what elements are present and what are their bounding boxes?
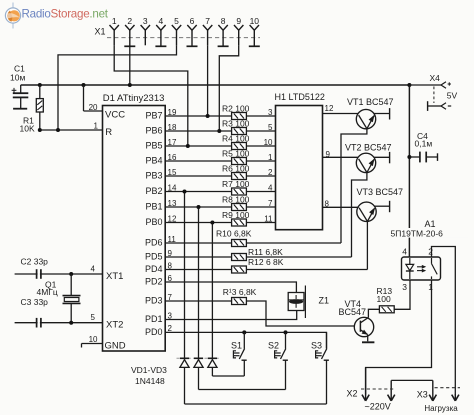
relay A1 light arrows [417,265,426,273]
wire PD2 line to Z1 [165,282,296,293]
svg-text:R9 100: R9 100 [222,210,250,220]
wire PB1 to VD2 [198,207,200,360]
diode VD2 [194,358,203,367]
display pin 12 stub [323,113,359,115]
junction PB1/VD2 wire [197,205,201,209]
transistor VT1 [356,109,375,128]
junction XT2/Q1 [69,321,73,325]
wire PD6 line [165,242,231,244]
svg-text:S2: S2 [268,341,279,351]
svg-text:VT2 BC547: VT2 BC547 [345,143,392,153]
junction PB6/X1 pin9 [217,129,221,133]
svg-text:9: 9 [326,150,331,159]
connector X1 pin 6 [187,16,198,46]
svg-text:VT1 BC547: VT1 BC547 [347,97,394,107]
svg-text:S3: S3 [311,341,322,351]
svg-text:XT1: XT1 [106,271,123,282]
svg-text:PD2: PD2 [145,277,163,287]
connector X1 dashed separation line [107,37,260,39]
svg-text:17: 17 [168,138,177,147]
connector X3 dashed link [435,387,461,389]
junction PB2/VD1 wire [183,190,187,194]
svg-text:5: 5 [174,16,179,26]
svg-text:R2 100: R2 100 [222,104,250,114]
wire bus2 [199,389,286,391]
wire X1 pin7 to PB7 [207,45,209,116]
svg-text:11: 11 [264,214,273,223]
svg-text:XT2: XT2 [106,320,123,331]
resistor R10 6,8K [232,240,247,247]
connector X3 contact 1 [429,380,436,400]
wire bus1 [212,375,244,377]
transistor VT3 emitter lead and tick [374,205,389,207]
switch S3 [316,332,329,360]
svg-text:R6 100: R6 100 [222,164,250,174]
chip pin 16 PB4 row wire [165,160,231,162]
resistor R12 6,8K [232,266,247,273]
chip pin 12 PB0 row wire [165,222,231,224]
svg-text:12: 12 [325,104,334,113]
svg-text:PD0: PD0 [145,327,163,337]
junction +5V/C4 [407,155,411,159]
svg-text:X1: X1 [95,27,106,37]
wire VT4 collector to R13 [368,309,379,317]
svg-text:19: 19 [168,108,177,117]
wire X1 pin9 to PB6 [219,45,238,131]
connector X1 pin 4 [155,16,166,46]
svg-text:1: 1 [94,122,99,131]
wire R13 to A1 pin3 [394,280,410,309]
junction reset/R1 [38,128,42,132]
svg-text:5П19ТМ-20-6: 5П19ТМ-20-6 [391,228,444,238]
svg-text:PD1: PD1 [145,314,163,324]
svg-text:5: 5 [91,313,96,322]
junction PB5/X1 pin1 [186,144,190,148]
junction rail/VCC drop [82,83,86,87]
wire PB2 to VD1 [184,192,186,360]
resistor R9 100 [232,219,247,226]
buzzer Z1 [288,286,305,319]
svg-text:R7 100: R7 100 [222,179,250,189]
resistor R7 100 [232,188,247,195]
wire PD3 line [165,300,231,302]
wire PD4 line [165,269,231,271]
svg-text:3: 3 [268,108,273,117]
capacitor C2 [37,269,41,279]
transistor VT4 [354,317,373,336]
svg-text:R8 100: R8 100 [222,195,250,205]
connector X1 pin 7 [203,16,212,45]
connector X3 contact 2 [452,394,459,401]
svg-text:PD5: PD5 [145,252,163,262]
svg-text:5V: 5V [447,90,458,100]
wire XT2 line [15,322,103,324]
svg-text:PB7: PB7 [145,111,162,121]
connector X4 + contact [409,82,451,88]
svg-text:16: 16 [168,153,177,162]
svg-text:PB6: PB6 [145,126,162,136]
svg-text:BC547: BC547 [339,307,367,317]
svg-text:13: 13 [168,199,177,208]
svg-text:PD6: PD6 [145,238,163,248]
svg-text:8: 8 [221,16,226,26]
resistor R3 100 [232,128,247,135]
svg-text:VT3 BC547: VT3 BC547 [357,187,404,197]
VT4 emitter ground [362,335,374,343]
connector X1 pin 2 [124,16,135,46]
svg-text:PB2: PB2 [145,186,162,196]
wire VT2 collector to PD5/R11 line [352,173,367,258]
chip pin 15 PB3 row wire [165,175,231,177]
connector X1 pin 8 [218,16,229,46]
svg-text:PB3: PB3 [145,171,162,181]
chip pin 14 PB2 row wire [165,191,231,193]
svg-text:10м: 10м [10,73,25,83]
wire XT1 line [15,273,103,275]
svg-text:PD4: PD4 [145,264,163,274]
connector X4 dashed link [433,87,435,104]
junction reset/pin5 wire [56,128,60,132]
svg-text:14: 14 [168,183,177,192]
wire X1 pin1 to PB5 [114,45,188,146]
wire PB0 to VD3 [211,223,213,360]
connector X1 pin 3 [141,16,150,45]
resistor R13 6,8K [232,298,247,305]
junction rail/X1 pin2 [128,83,132,87]
IC D1 ATtiny2313 body [103,106,166,352]
svg-text:R10 6,8K: R10 6,8K [216,229,252,239]
junction XT1/Q1 [69,272,73,276]
wire X2 contact2 to X3 contact1 [391,379,433,381]
svg-text:~220V: ~220V [365,402,391,412]
svg-text:Z1: Z1 [319,296,330,306]
junction rail/X4 [407,83,411,87]
svg-text:5: 5 [268,123,273,132]
svg-text:X4: X4 [430,73,441,83]
svg-text:7: 7 [268,199,273,208]
svg-text:9: 9 [236,16,241,26]
wire +5V rail [21,84,410,86]
wire S1 to bus1 [243,360,245,376]
transistor VT2 emitter lead and tick [374,156,390,158]
svg-text:12: 12 [168,214,177,223]
connector X2 contact 2 [388,380,395,400]
svg-text:4: 4 [91,264,96,273]
display H1 body [276,106,323,230]
resistor R1 [36,99,43,112]
svg-text:10K: 10K [20,124,35,134]
svg-text:RadioStorage.net: RadioStorage.net [22,7,109,20]
junction PB7/X1 pin7 [206,114,210,118]
chip pin 13 PB1 row wire [165,206,231,208]
wire A1 pin2 to X3 [432,247,456,395]
resistor R2 100 [232,113,247,120]
switch S2 [275,332,288,360]
svg-text:2: 2 [268,168,273,177]
diode VD1 [180,358,189,367]
svg-text:2: 2 [428,247,433,257]
junction rail/R1-C1 [38,83,42,87]
logo RadioStorage.net [5,3,108,29]
svg-text:R12 6 8K: R12 6 8K [248,257,284,267]
connector X1 pin 1 [110,16,119,45]
wire VD1 to bus3 [184,367,186,404]
svg-text:Нагрузка: Нагрузка [424,404,458,413]
svg-text:PD3: PD3 [145,296,163,306]
junction PB0/VD3 wire [210,221,214,225]
svg-text:H1 LTD5122: H1 LTD5122 [275,92,325,102]
resistor R4 100 [232,143,247,150]
transistor VT2 [356,153,375,172]
svg-text:7: 7 [205,16,210,26]
svg-text:10: 10 [89,335,98,344]
resistor R8 100 [232,204,247,211]
transistor VT3 [357,202,376,221]
display pin 8 stub [323,206,359,208]
svg-text:C3 33p: C3 33p [21,297,49,307]
svg-text:PB0: PB0 [145,217,162,227]
relay A1 switch [432,258,438,279]
svg-text:3: 3 [143,16,148,26]
svg-text:15: 15 [168,168,177,177]
wire reset line [40,129,103,131]
wire PD0 line to S3 [165,332,326,348]
wire VT3 collector to PD4/R12 line [366,221,368,269]
wire PD5 line [165,256,231,258]
svg-text:1N4148: 1N4148 [135,376,165,386]
wire VT1 collector to PD6/R10 line [341,129,367,243]
capacitor C4 [409,152,437,163]
wire X1 pin5 to reset line [58,45,177,130]
junction PD0/S1 [242,330,246,334]
relay A1 LED [406,258,414,279]
chip pin 17 PB5 row wire [165,145,231,147]
svg-text:R4 100: R4 100 [222,134,250,144]
connector X4 - contact [428,101,452,111]
svg-text:1: 1 [112,16,117,26]
connector X1 pin 10 [249,16,260,46]
resistor R5 100 [232,158,247,165]
svg-text:20: 20 [89,103,98,112]
switch S1 [233,332,246,360]
svg-text:VCC: VCC [105,110,125,121]
display pin 9 stub [323,156,359,158]
connector X2 contact 1 [362,368,369,401]
wire VD3 to bus1 [211,367,213,376]
svg-text:10: 10 [264,138,273,147]
svg-text:8: 8 [325,200,330,209]
connector X1 pin 5 [172,16,181,45]
svg-text:R5 100: R5 100 [222,149,250,159]
wire A1 pin1 to X2 [366,280,432,395]
svg-text:18: 18 [168,123,177,132]
pin 20 VCC stub [83,85,85,111]
connector X1 pin 9 [234,16,243,45]
capacitor C1 [12,85,29,109]
diode cathode dashed line [177,357,221,359]
svg-text:R3 100: R3 100 [222,119,250,129]
svg-text:X3: X3 [417,390,428,400]
svg-text:R11 6,8K: R11 6,8K [248,247,283,257]
wire S3 to bus3 [326,360,328,404]
diode VD3 [208,358,217,367]
transistor VT1 emitter lead and tick [374,113,390,115]
wire bus3 [185,403,327,405]
svg-text:D1 ATtiny2313: D1 ATtiny2313 [103,93,165,104]
svg-text:1: 1 [268,153,273,162]
wire S2 to bus2 [285,360,287,389]
svg-text:2: 2 [127,16,132,26]
svg-text:GND: GND [105,341,126,352]
svg-text:1: 1 [428,282,433,292]
resistor R11 6,8K [232,254,247,261]
wire PD1 line to Z1 bottom [165,311,297,320]
svg-text:4МГц: 4МГц [37,287,58,297]
svg-text:10: 10 [250,16,260,26]
svg-text:0,1м: 0,1м [415,139,433,149]
svg-text:PB1: PB1 [145,202,162,212]
svg-text:6: 6 [190,16,195,26]
chip pin 19 PB7 row wire [165,115,231,117]
wire X1 pin2 to +5V rail [129,46,131,85]
svg-text:VD1-VD3: VD1-VD3 [131,365,167,375]
wire +5V vertical to A1 pin4 [408,85,410,257]
svg-text:X2: X2 [347,389,358,399]
chip pin 18 PB6 row wire [165,130,231,132]
wire R13 to VT4 base [246,301,354,326]
svg-text:4: 4 [268,183,273,192]
wire VD2 to bus2 [198,367,200,389]
svg-text:100: 100 [377,294,391,304]
svg-text:4: 4 [402,247,407,257]
capacitor C3 [37,318,41,328]
svg-text:C2 33p: C2 33p [21,257,49,267]
svg-text:3: 3 [402,282,407,292]
svg-text:R¹3 6,8K: R¹3 6,8K [223,287,257,297]
resistor R1 leads [39,85,41,99]
resistor R13 100 [379,306,394,313]
svg-text:R: R [105,127,112,138]
svg-text:PB5: PB5 [145,141,162,151]
junction PD0/S2 [284,330,288,334]
crystal Q1 [63,274,81,323]
resistor R6 100 [232,173,247,180]
svg-text:S1: S1 [231,341,242,351]
relay A1 body [402,257,441,280]
svg-text:4: 4 [159,16,164,26]
svg-text:PB4: PB4 [145,156,162,166]
connector X2 dashed link [361,388,395,390]
